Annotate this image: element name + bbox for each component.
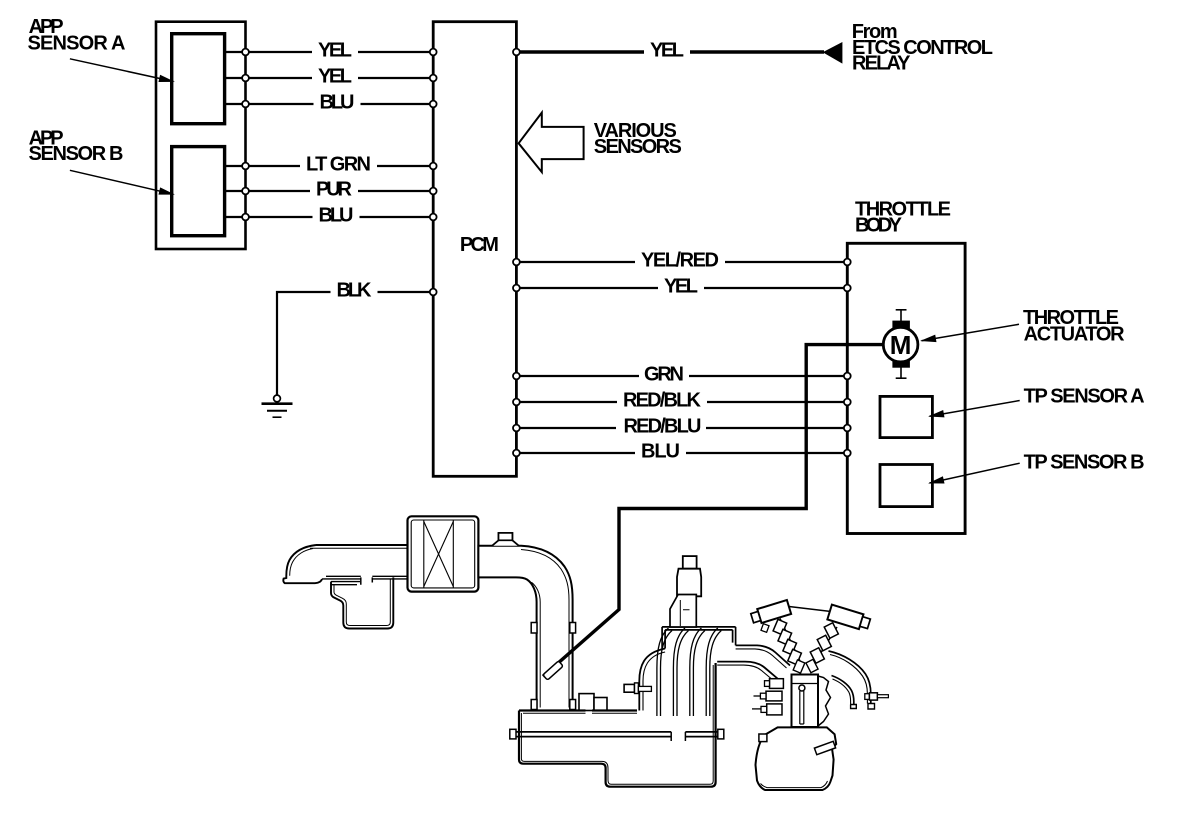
wire YEL (APP A pin2 to PCM) — [225, 77, 434, 79]
chamber internal baffle — [514, 732, 721, 737]
ground symbol — [262, 395, 293, 417]
wire BLK (PCM to ground) — [277, 292, 433, 395]
leader line TP SENSOR A label to box — [930, 401, 1020, 417]
svg-text:RELAY: RELAY — [852, 53, 911, 75]
left ignition coil — [750, 600, 791, 625]
left spark plug boot segments — [773, 619, 787, 634]
motor top brush block — [892, 321, 910, 330]
oil pan drain fitting — [814, 741, 835, 754]
wire RED/BLK (PCM to throttle body) — [516, 401, 847, 403]
TP sensor A box — [880, 396, 932, 437]
intake chamber outline — [519, 663, 716, 787]
svg-text:TP SENSOR B: TP SENSOR B — [1024, 451, 1145, 473]
svg-text:PUR: PUR — [316, 179, 353, 201]
wire color code labels — [306, 40, 719, 463]
oil pan — [756, 727, 837, 790]
oil pan left tab — [759, 734, 767, 742]
wire GRN (PCM to throttle body) — [516, 375, 847, 377]
right spark plug boot segments — [824, 623, 838, 638]
wire BLU (APP A pin3 to PCM) — [225, 103, 434, 105]
svg-text:YEL: YEL — [318, 40, 352, 62]
purge valve neck and boss — [670, 595, 696, 628]
fuel pipe fitting on runner bank — [624, 684, 634, 692]
leader line APP SENSOR B label to box — [70, 170, 174, 194]
APP sensor connector outer box — [156, 22, 246, 249]
VARIOUS SENSORS hollow arrow into PCM — [519, 113, 584, 173]
leader line APP SENSOR A label to box — [70, 59, 174, 82]
wire BLU (APP B pin3 to PCM) — [225, 216, 434, 218]
leader line THROTTLE ACTUATOR label to motor — [922, 324, 1020, 341]
air cleaner element with X cross — [424, 520, 454, 587]
svg-text:SENSORS: SENSORS — [594, 136, 682, 158]
wire label backgrounds — [300, 44, 725, 461]
component name labels — [28, 16, 1145, 474]
snorkel inlet left cap — [283, 545, 322, 583]
pin terminals on APP connector edge — [242, 49, 851, 457]
pin terminals on PCM left edge — [430, 49, 437, 56]
right side sensor rod fitting — [865, 694, 870, 700]
intake chamber top edge — [519, 709, 637, 711]
svg-text:SENSOR A: SENSOR A — [28, 32, 126, 54]
motor bottom brush block — [892, 359, 910, 368]
wire RED/BLU (PCM to throttle body) — [516, 427, 847, 429]
air cleaner box — [408, 516, 479, 591]
pipe from plenum to engine (lower) — [717, 662, 777, 679]
exhaust heat pipe outer arch — [829, 651, 871, 704]
intake runners — [657, 628, 721, 716]
duct top fitting nub — [492, 533, 519, 546]
svg-text:YEL: YEL — [650, 40, 684, 62]
throttle body box — [847, 243, 965, 533]
thick wire from throttle actuator motor down to engine throttle body — [543, 345, 884, 677]
leader line TP SENSOR B label to box — [930, 463, 1020, 483]
plenum top cover — [662, 627, 736, 649]
motor circle M — [883, 327, 918, 362]
TP sensor B box — [880, 465, 932, 507]
left engine fittings — [770, 679, 784, 689]
exhaust heat pipe inner arch — [832, 676, 854, 705]
throttle actuator motor: top terminal stub — [883, 310, 918, 378]
motor bottom terminal stub — [900, 368, 902, 379]
resonator ledge — [331, 582, 360, 585]
pin terminals on throttle body left edge — [844, 259, 851, 266]
wire YEL (APP A pin1 to PCM) — [225, 51, 434, 53]
wire YEL (PCM to ETCS control relay), thick — [516, 50, 824, 53]
APP sensor B box — [172, 147, 225, 236]
wire BLU (PCM to throttle body) — [516, 452, 847, 454]
wire LT GRN (APP B pin1 to PCM) — [225, 165, 434, 167]
engine block right outline — [818, 676, 831, 726]
svg-text:BODY: BODY — [855, 214, 903, 236]
right ignition coil — [827, 605, 871, 632]
wire YEL/RED (PCM to throttle body) — [516, 261, 847, 263]
svg-text:YEL: YEL — [318, 66, 352, 88]
svg-text:ACTUATOR: ACTUATOR — [1024, 323, 1126, 345]
wire YEL (PCM to throttle body) — [516, 287, 847, 289]
PCM box — [433, 22, 516, 477]
runner bank left outline — [639, 649, 665, 711]
duct clamp tabs — [531, 623, 537, 634]
purge valve body — [677, 569, 701, 597]
pipe from plenum to engine (upper) — [736, 645, 790, 665]
svg-text:BLU: BLU — [320, 92, 355, 114]
intake snorkel duct top edge — [316, 544, 408, 546]
engine valley outline — [780, 607, 837, 668]
pin terminals on PCM right edge — [513, 49, 520, 56]
svg-text:TP SENSOR A: TP SENSOR A — [1024, 385, 1145, 407]
resonator flask — [331, 577, 393, 628]
ignition coil bracket plug — [761, 624, 769, 633]
engine intake illustration — [283, 345, 888, 790]
snorkel bottom edge with resonator passage — [322, 576, 408, 579]
svg-text:M: M — [890, 330, 912, 360]
arrowhead From ETCS CONTROL RELAY — [823, 42, 843, 64]
APP sensor A box — [172, 34, 225, 124]
svg-text:SENSOR B: SENSOR B — [29, 143, 124, 165]
purge valve cap — [683, 556, 697, 569]
svg-text:BLU: BLU — [319, 205, 354, 227]
svg-text:YEL: YEL — [664, 276, 698, 298]
connector at end of actuator lead on intake duct — [543, 661, 563, 680]
svg-text:RED/BLK: RED/BLK — [623, 390, 702, 412]
wire PUR (APP B pin2 to PCM) — [225, 190, 434, 192]
throttle body bracket blocks — [579, 694, 594, 711]
svg-text:BLU: BLU — [641, 441, 680, 463]
svg-text:YEL/RED: YEL/RED — [641, 250, 719, 272]
svg-text:RED/BLU: RED/BLU — [624, 416, 702, 438]
cylinder head block — [792, 675, 819, 728]
svg-text:LT GRN: LT GRN — [306, 154, 371, 176]
svg-text:GRN: GRN — [644, 364, 684, 386]
intake duct elbow to throttle body — [478, 546, 572, 711]
svg-text:PCM: PCM — [460, 234, 499, 256]
svg-text:BLK: BLK — [337, 280, 373, 302]
resonator neck walls — [361, 577, 373, 584]
